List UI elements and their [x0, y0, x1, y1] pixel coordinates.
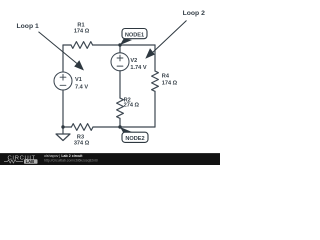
svg-text:NODE2: NODE2 [125, 136, 144, 142]
resistor R4 [152, 71, 159, 91]
footer banner [0, 153, 220, 165]
svg-text:7.4 V: 7.4 V [75, 84, 88, 90]
svg-text:274 Ω: 274 Ω [124, 102, 140, 108]
wire right branch lower [154, 91, 156, 127]
ground [62, 127, 64, 134]
svg-text:Loop 2: Loop 2 [183, 10, 205, 17]
svg-text:1.74 V: 1.74 V [130, 65, 146, 71]
wire top-right segment [93, 44, 155, 46]
wire bottom left segment [63, 126, 71, 128]
wire right branch upper [154, 45, 156, 71]
resistor R2 [117, 98, 124, 118]
voltage source V1 [54, 72, 72, 90]
svg-text:LAB: LAB [26, 159, 35, 164]
node ground junction dot [61, 125, 64, 128]
svg-text:http://circuitlab.com/c6t6kzce: http://circuitlab.com/c6t6kzceq82n6/ [44, 159, 98, 163]
footer logo LAB [24, 159, 38, 164]
svg-text:R4: R4 [162, 74, 170, 80]
node A junction dot top [118, 43, 121, 46]
wire mid branch bottom [119, 118, 121, 127]
wire top-left segment [63, 44, 71, 46]
resistor R1 [71, 42, 93, 49]
wire bottom right segment [93, 126, 155, 128]
svg-text:374 Ω: 374 Ω [74, 141, 90, 147]
node NODE2 callout [120, 127, 148, 142]
svg-text:V1: V1 [75, 77, 82, 83]
wire left branch upper [62, 45, 64, 72]
svg-text:174 Ω: 174 Ω [74, 29, 90, 35]
wire mid branch middle [119, 71, 121, 98]
loop 1 annotation arrow [39, 32, 85, 71]
node B junction dot bottom [118, 125, 121, 128]
node NODE1 callout [120, 29, 147, 46]
resistor R3 [71, 124, 93, 131]
wire mid branch top [119, 45, 121, 53]
footer logo zigzag [4, 160, 23, 163]
svg-text:V2: V2 [130, 58, 137, 64]
svg-text:NODE1: NODE1 [125, 32, 144, 38]
wire left branch lower [62, 90, 64, 127]
loop 2 annotation arrow [145, 21, 186, 59]
voltage source V2 [111, 53, 129, 71]
svg-text:Loop 1: Loop 1 [17, 23, 39, 30]
svg-text:174 Ω: 174 Ω [162, 81, 178, 87]
